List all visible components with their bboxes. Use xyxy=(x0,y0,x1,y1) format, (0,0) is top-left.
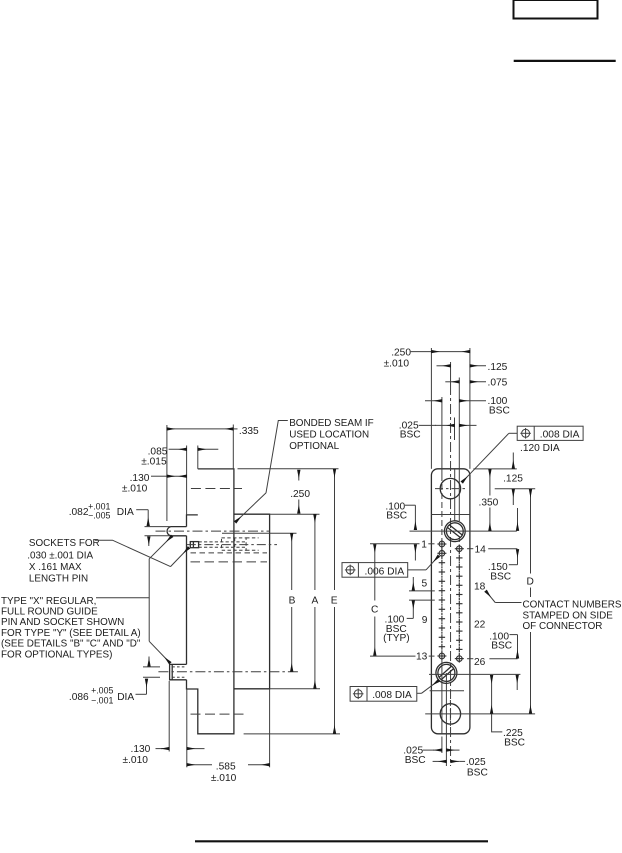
svg-text:.008 DIA: .008 DIA xyxy=(540,430,580,441)
svg-text:BSC: BSC xyxy=(504,737,525,748)
svg-text:BSC: BSC xyxy=(467,767,488,778)
contact 8 xyxy=(439,608,445,610)
contact 10 xyxy=(439,627,445,629)
svg-text:FULL ROUND GUIDE: FULL ROUND GUIDE xyxy=(1,607,98,618)
bottom hole centerline (left view) xyxy=(191,713,244,715)
contact 21 xyxy=(456,612,462,614)
svg-text:.125: .125 xyxy=(503,473,523,484)
svg-text:OPTIONAL: OPTIONAL xyxy=(289,441,339,452)
svg-text:.008 DIA: .008 DIA xyxy=(372,690,412,701)
contact 23 xyxy=(456,630,462,632)
contact 7 xyxy=(439,599,445,601)
contact 9 xyxy=(439,618,445,620)
svg-text:SOCKETS FOR: SOCKETS FOR xyxy=(29,538,100,549)
E bottom extension xyxy=(244,733,340,735)
socket centerline xyxy=(187,544,277,546)
svg-text:18: 18 xyxy=(474,582,486,593)
A top extension (block top) xyxy=(270,513,320,515)
svg-text:B: B xyxy=(289,595,296,606)
svg-text:5: 5 xyxy=(422,578,428,589)
svg-text:.130: .130 xyxy=(131,744,151,755)
heading rule top right xyxy=(514,60,616,62)
svg-text:.350: .350 xyxy=(479,498,499,509)
svg-text:.086: .086 xyxy=(69,692,89,703)
contact 14 xyxy=(457,546,463,552)
svg-text:BSC: BSC xyxy=(405,755,426,766)
contact 20 xyxy=(456,603,462,605)
contact 1 xyxy=(439,541,445,547)
vertical extension: contact row 14 line xyxy=(458,378,460,522)
contact 22 xyxy=(456,621,462,623)
bottom hole centerline across xyxy=(425,713,535,715)
bottom guide hole xyxy=(440,704,460,724)
svg-text:26: 26 xyxy=(474,657,486,668)
svg-text:−.005: −.005 xyxy=(88,511,110,521)
right view: connector front face body xyxy=(431,469,470,734)
svg-text:.120 DIA: .120 DIA xyxy=(520,443,560,454)
svg-text:FOR OPTIONAL TYPES): FOR OPTIONAL TYPES) xyxy=(1,650,112,661)
svg-text:14: 14 xyxy=(475,544,487,555)
title block box top right xyxy=(514,0,598,19)
svg-text:DIA: DIA xyxy=(117,692,134,703)
svg-text:.006 DIA: .006 DIA xyxy=(365,566,405,577)
svg-text:−.001: −.001 xyxy=(91,696,113,706)
svg-text:.030 ±.001 DIA: .030 ±.001 DIA xyxy=(27,551,93,562)
top hole center extension (right) xyxy=(495,488,536,490)
svg-text:BONDED SEAM IF: BONDED SEAM IF xyxy=(289,418,374,429)
vertical stub line (.025 offset) xyxy=(454,418,456,441)
top guide hole centerline (left view) xyxy=(191,488,242,490)
svg-text:A: A xyxy=(312,595,319,606)
svg-text:22: 22 xyxy=(474,619,486,630)
svg-text:BSC: BSC xyxy=(386,511,407,522)
svg-text:BSC: BSC xyxy=(491,641,512,652)
feature control frame .008 DIA (top) xyxy=(517,426,583,440)
vertical extension: contact row 1 line xyxy=(441,397,443,475)
footer rule bottom xyxy=(195,840,488,842)
svg-text:DIA: DIA xyxy=(117,507,134,518)
svg-text:LENGTH PIN: LENGTH PIN xyxy=(29,574,88,585)
svg-text:.250: .250 xyxy=(391,348,411,359)
contact 24 xyxy=(456,639,462,641)
left view: mating face block xyxy=(234,514,270,689)
contact 15 xyxy=(456,557,462,559)
svg-text:1: 1 xyxy=(421,539,427,550)
contact 4 xyxy=(439,571,445,573)
lower screw centerline across xyxy=(429,673,520,675)
svg-text:±.010: ±.010 xyxy=(123,755,149,766)
svg-text:D: D xyxy=(527,576,534,587)
contact 26 extension xyxy=(467,658,473,660)
E top extension xyxy=(238,468,339,470)
svg-text:13: 13 xyxy=(416,652,428,663)
svg-text:9: 9 xyxy=(422,615,428,626)
vertical extension: body left edge xyxy=(430,348,432,469)
contact 11 xyxy=(439,636,445,638)
svg-text:(SEE DETAILS "B" "C" AND "D": (SEE DETAILS "B" "C" AND "D" xyxy=(1,639,141,650)
svg-text:BSC: BSC xyxy=(400,429,421,440)
contact pitch extension lines xyxy=(409,590,435,592)
svg-text:E: E xyxy=(331,595,338,606)
contact 1 extension xyxy=(370,543,420,545)
svg-text:.335: .335 xyxy=(239,426,259,437)
contact 6 xyxy=(439,590,445,592)
contact 26 xyxy=(457,656,463,662)
extension lines, left view xyxy=(166,425,168,521)
right view: vertical centerline xyxy=(450,362,452,385)
svg-text:.075: .075 xyxy=(488,377,508,388)
top guide hole xyxy=(440,478,460,498)
svg-text:+.005: +.005 xyxy=(91,685,113,695)
feature control frame .008 DIA (bottom) xyxy=(350,687,417,702)
feature control frame .006 DIA xyxy=(342,563,408,578)
svg-text:USED LOCATION: USED LOCATION xyxy=(289,429,369,440)
lower socket centerline (extends to B dim) xyxy=(158,671,300,673)
svg-text:±.010: ±.010 xyxy=(122,483,148,494)
svg-text:.082: .082 xyxy=(69,507,89,518)
contact 13 xyxy=(439,653,445,659)
contact 2 xyxy=(439,551,445,557)
left view: full round guide pin (top) xyxy=(167,527,186,536)
svg-text:TYPE "X" REGULAR,: TYPE "X" REGULAR, xyxy=(1,596,96,607)
body top right extension xyxy=(473,468,516,470)
contact 13 extension xyxy=(370,655,416,657)
vertical line through lower screw to bottom xyxy=(445,673,447,766)
svg-text:±.010: ±.010 xyxy=(211,773,237,784)
svg-text:OF CONNECTOR: OF CONNECTOR xyxy=(523,621,603,632)
contact 18 xyxy=(456,584,462,586)
contact 25 xyxy=(456,648,462,650)
left view: hidden socket detail (dashed) xyxy=(190,542,198,548)
hidden rows below socket xyxy=(191,552,268,554)
svg-text:BSC: BSC xyxy=(490,571,511,582)
svg-text:BSC: BSC xyxy=(489,406,510,417)
contact 3 xyxy=(439,562,445,564)
vertical extension: body right edge xyxy=(469,348,471,469)
contact 16 xyxy=(456,566,462,568)
contact 14 extension xyxy=(467,548,473,550)
top screw centerline across xyxy=(410,530,517,532)
svg-text:.585: .585 xyxy=(216,762,236,773)
svg-text:.125: .125 xyxy=(488,362,508,373)
svg-text:C: C xyxy=(371,604,378,615)
left view: connector body outline (side view) xyxy=(187,469,234,734)
svg-text:CONTACT NUMBERS: CONTACT NUMBERS xyxy=(523,599,622,610)
svg-text:±.015: ±.015 xyxy=(141,456,167,467)
svg-text:(TYP): (TYP) xyxy=(383,633,410,644)
contact 5 xyxy=(439,580,445,582)
insulator face line xyxy=(431,514,470,516)
svg-text:±.010: ±.010 xyxy=(384,359,410,370)
bottom jackscrew (slotted) xyxy=(432,658,462,688)
lower insulator line xyxy=(430,690,464,692)
left view: lower guide socket protrusion xyxy=(170,664,187,679)
svg-text:FOR TYPE "Y" (SEE DETAIL A): FOR TYPE "Y" (SEE DETAIL A) xyxy=(1,628,141,639)
contact 12 xyxy=(439,646,445,648)
svg-text:PIN AND SOCKET SHOWN: PIN AND SOCKET SHOWN xyxy=(1,617,124,628)
.086 dia extension lines xyxy=(143,666,160,668)
B top extension xyxy=(222,532,297,534)
svg-text:STAMPED ON SIDE: STAMPED ON SIDE xyxy=(523,610,614,621)
top jackscrew (slotted) xyxy=(440,517,469,546)
A bottom extension xyxy=(270,688,320,690)
contact 17 xyxy=(456,575,462,577)
contact 19 xyxy=(456,594,462,596)
svg-text:X .161 MAX: X .161 MAX xyxy=(29,562,82,573)
svg-text:.250: .250 xyxy=(290,489,310,500)
pin centerline xyxy=(156,530,271,532)
